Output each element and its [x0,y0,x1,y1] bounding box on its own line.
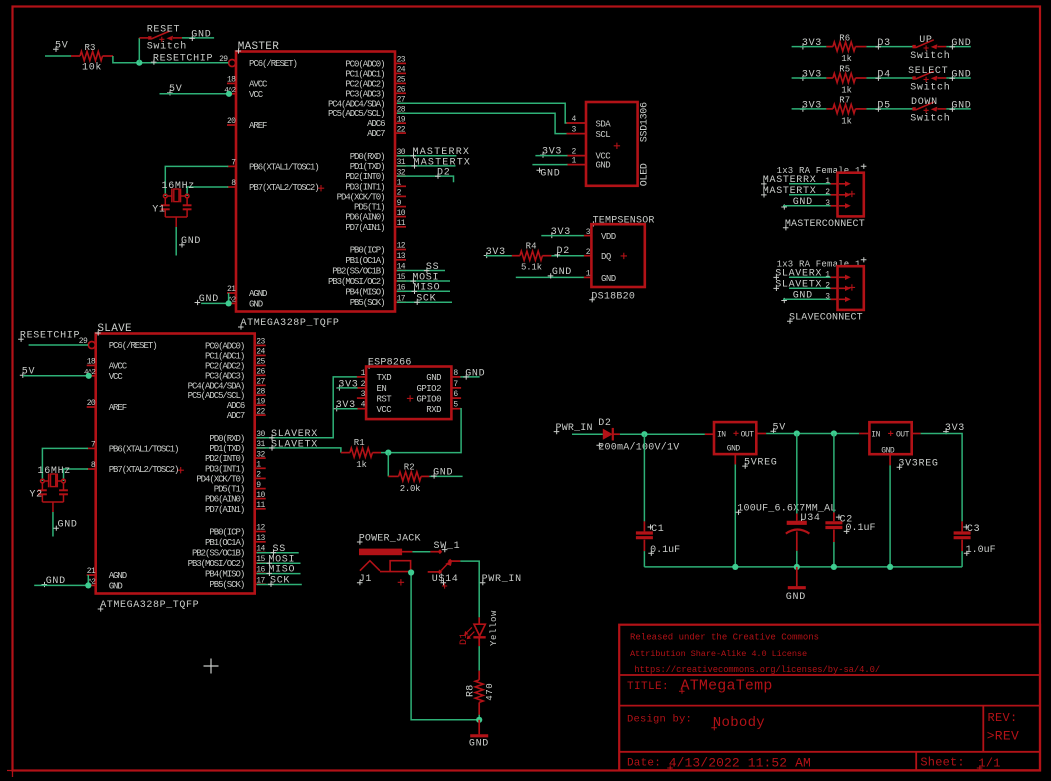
svg-text:PD0(RXD): PD0(RXD) [209,434,244,444]
junction R1/R2/RXD node [385,450,391,456]
svg-text:RESETCHIP: RESETCHIP [153,53,213,64]
resistor R2 2.0k [388,475,398,477]
svg-text:PD7(AIN1): PD7(AIN1) [345,223,384,233]
wire R6 to UP switch [866,46,914,48]
svg-text:27: 27 [256,378,265,387]
svg-text:R6: R6 [839,33,850,43]
svg-text:Switch: Switch [910,82,950,94]
wire R7 to DOWN switch [866,108,914,110]
svg-text:10k: 10k [82,62,102,74]
svg-text:4/13/2022 11:52 AM: 4/13/2022 11:52 AM [669,755,811,770]
svg-text:1.0uF: 1.0uF [966,545,996,556]
svg-text:21: 21 [87,567,96,576]
svg-text:PB3(MOSI/OC2): PB3(MOSI/OC2) [328,277,385,287]
svg-text:5.1k: 5.1k [521,262,542,272]
svg-text:PD3(INT1): PD3(INT1) [205,464,244,474]
svg-text:GPIO0: GPIO0 [416,394,441,404]
svg-text:22: 22 [256,407,265,416]
switch SW_1 / U$14 [437,549,442,554]
wire SDA master PC4 to OLED [397,103,568,123]
switch UP [912,45,915,48]
svg-text:J1: J1 [359,574,372,585]
MASTERCONNECT pin 3 [831,205,838,207]
wire down to C2 [833,434,835,513]
svg-text:PC5(ADC5/SCL): PC5(ADC5/SCL) [328,109,385,119]
svg-text:MASTERCONNECT: MASTERCONNECT [785,219,865,230]
svg-text:SCL: SCL [596,130,611,140]
svg-text:DS18B20: DS18B20 [591,291,635,302]
svg-text:24: 24 [256,348,265,357]
ground symbol (LED branch) [478,720,480,735]
wire SLAVERX to SLAVECONNECT pin 1 [789,276,831,278]
svg-text:OUT: OUT [741,430,755,439]
svg-text:SS: SS [273,544,286,555]
svg-text:R1: R1 [354,438,365,448]
resistor R7 1k [826,108,833,110]
connector SLAVECONNECT body [838,266,864,310]
svg-text:GND: GND [540,168,560,179]
svg-text:Nobody: Nobody [713,715,765,731]
svg-text:PD3(INT1): PD3(INT1) [345,182,384,192]
svg-text:POWER_JACK: POWER_JACK [359,533,421,544]
wire MASTERRX (master PD0) [397,155,456,157]
wire slave PB6 to crystal Y2 [42,448,88,481]
svg-text:SLAVECONNECT: SLAVECONNECT [789,313,863,324]
wire 3V3 to R4 [486,255,512,257]
svg-text:AVCC: AVCC [109,361,128,371]
wire 3V3 to DS18B20 VDD [541,235,584,237]
DS18B20 pin stubs [584,235,592,237]
svg-text:D4: D4 [877,70,890,81]
svg-text:R5: R5 [839,65,850,75]
svg-text:ADC6: ADC6 [227,401,245,411]
svg-text:23: 23 [397,56,406,65]
SLAVECONNECT pin 2 [831,287,838,289]
svg-text:AREF: AREF [249,121,267,131]
svg-text:VDD: VDD [601,232,616,242]
wire jack tip to switch SW_1 [402,551,412,553]
resistor R1 1k [341,452,350,454]
switch SW_1 lower throw stub [428,571,439,573]
svg-text:21: 21 [227,285,236,294]
wire R2 to GND label [429,475,462,477]
svg-text:>REV: >REV [987,729,1019,744]
svg-text:12: 12 [397,242,406,251]
svg-text:PD5(T1): PD5(T1) [354,203,384,213]
wire switch to GND label [182,37,214,39]
wire 3V3 to OLED VCC [535,155,567,157]
wire GND to SLAVECONNECT pin 3 [783,298,831,300]
svg-text:MASTER: MASTER [238,41,280,53]
svg-text:ADC7: ADC7 [367,129,385,139]
svg-text:PWR_IN: PWR_IN [556,423,593,434]
OLED pin stubs [567,122,587,124]
wire 3V3 to ESP VCC [336,408,358,410]
svg-text:VCC: VCC [109,372,124,382]
svg-text:5VREG: 5VREG [744,457,778,468]
switch SELECT [912,76,915,79]
svg-text:PB4(MISO): PB4(MISO) [205,569,244,579]
wire ESP RXD to R1/R2 node [388,409,461,453]
svg-text:RESETCHIP: RESETCHIP [20,331,80,342]
svg-text:R7: R7 [839,96,850,106]
svg-text:GND: GND [596,161,611,171]
svg-text:PB3(MOSI/OC2): PB3(MOSI/OC2) [188,559,245,569]
capacitor C2 0.1uF [833,512,835,521]
svg-text:PD2(INT0): PD2(INT0) [345,172,384,182]
wire SCK (slave PB5) [257,584,302,586]
resistor R4 [512,255,520,257]
svg-text:DOWN: DOWN [911,97,938,108]
3V3REG output [912,433,921,435]
svg-text:ATMEGA328P_TQFP: ATMEGA328P_TQFP [100,600,199,611]
wire SCL master PC5 to OLED [397,113,568,133]
svg-text:GND: GND [786,592,806,603]
svg-text:RXD: RXD [426,405,441,415]
wire D2 net to DS18B20 DQ [551,255,584,257]
svg-text:Design by:: Design by: [627,714,692,726]
wire switch common to PWR_IN corner [451,560,460,562]
svg-text:MISO: MISO [414,283,441,294]
svg-text:GPIO2: GPIO2 [416,384,441,394]
wire 5V to slave VCC [23,375,89,377]
svg-text:25: 25 [256,358,265,367]
wire DOWN switch to GND [946,108,971,110]
svg-text:PB2(SS/OC1B): PB2(SS/OC1B) [332,267,384,277]
regulator 3V3REG body [859,433,869,435]
MASTER left-side pins [227,82,236,84]
title block divider lines [619,675,1040,770]
svg-text:ATMEGA328P_TQFP: ATMEGA328P_TQFP [241,318,340,329]
svg-text:VCC: VCC [377,405,393,415]
OLED SSD1306 module body [586,102,638,186]
svg-text:PB1(OC1A): PB1(OC1A) [345,256,384,266]
svg-text:1k: 1k [841,117,851,127]
wire C2 to ground rail [833,542,835,567]
svg-text:RESET: RESET [147,25,181,36]
svg-text:GND: GND [951,70,971,81]
svg-text:GND: GND [249,299,263,309]
junction 3V3REG gnd [887,564,893,570]
svg-text:20: 20 [227,117,236,126]
svg-text:Attribution Share-Alike 4.0 Li: Attribution Share-Alike 4.0 License [630,649,807,659]
svg-text:IN: IN [717,430,726,439]
svg-text:REV:: REV: [988,711,1018,725]
origin crosshair mark [204,659,219,674]
MASTER pin 29 PC6(/RESET) bubble [229,60,236,67]
temperature sensor DS18B20 body [591,224,644,287]
svg-text:PC3(ADC3): PC3(ADC3) [205,371,244,381]
LED D1 Yellow [478,617,480,624]
SLAVE ATMEGA328P_TQFP chip body [96,334,255,594]
3V3REG ground pin to rail [889,454,891,465]
junction C1 tap [641,431,647,437]
svg-text:R4: R4 [526,242,537,252]
junction U34 tap [794,430,800,436]
svg-text:1k: 1k [841,54,851,64]
MASTERCONNECT pin 1 [831,183,838,185]
svg-text:PB6(XTAL1/TOSC1): PB6(XTAL1/TOSC1) [109,444,179,454]
svg-text:OLED: OLED [640,163,651,186]
svg-text:SELECT: SELECT [908,66,948,77]
wire down to C1 [643,434,645,521]
wire master PB7 to crystal [187,187,228,196]
svg-text:25: 25 [397,76,406,85]
svg-text:PB5(SCK): PB5(SCK) [209,580,244,590]
wire PWR_IN to D2 [572,433,603,435]
svg-text:PC0(ADC0): PC0(ADC0) [345,59,384,69]
wire RESETCHIP to slave PC6 [29,344,88,346]
svg-text:PB1(OC1A): PB1(OC1A) [205,538,244,548]
svg-text:Yellow: Yellow [489,610,499,646]
svg-text:3V3: 3V3 [802,70,822,81]
svg-text:PB4(MISO): PB4(MISO) [345,287,384,297]
svg-text:PC2(ADC2): PC2(ADC2) [345,79,384,89]
svg-text:GND: GND [58,520,78,531]
svg-text:Switch: Switch [147,41,187,53]
svg-text:PD7(AIN1): PD7(AIN1) [205,505,244,515]
svg-text:20: 20 [87,399,96,408]
svg-text:5V: 5V [773,423,786,434]
svg-text:D2: D2 [598,418,611,429]
junction master VCC [226,91,232,97]
svg-text:IN: IN [871,431,880,440]
svg-text:D1: D1 [459,632,470,645]
svg-text:TXD: TXD [377,373,392,383]
svg-text:AVCC: AVCC [249,79,268,89]
junction U34 gnd [794,564,800,570]
border corner mark bottom-left [7,765,18,777]
svg-text:GND: GND [433,467,453,478]
svg-text:19: 19 [256,397,265,406]
wire MASTERTX to MASTERCONNECT pin 2 [789,194,831,196]
svg-text:GND: GND [191,30,211,41]
wire LED to R8 [478,646,480,671]
svg-text:470: 470 [485,683,495,701]
wire 5V to R3 [45,55,71,57]
wire SLAVETX slave PD1 to R1 [257,448,341,453]
svg-text:RST: RST [377,394,393,404]
svg-text:PC6(/RESET): PC6(/RESET) [109,341,157,351]
ESP8266 left pin stubs [357,376,366,378]
capacitor C1 0.1uF [643,521,645,531]
svg-text:1k: 1k [356,460,366,470]
svg-text:16MHz: 16MHz [162,181,196,192]
title block frame [619,625,1040,771]
wire slave PB7 to crystal Y2 [64,469,89,481]
junction C2 gnd [831,564,837,570]
svg-text:100UF_6.6X7MM_AL: 100UF_6.6X7MM_AL [737,504,836,515]
wire R3 to RESETCHIP node [113,56,228,63]
svg-text:Switch: Switch [910,50,950,62]
svg-text:3V3: 3V3 [802,38,822,49]
SLAVECONNECT pin 3 [831,298,838,300]
svg-text:PD5(T1): PD5(T1) [214,485,244,495]
MASTER ATMEGA328P_TQFP chip body [236,52,395,312]
svg-text:SLAVETX: SLAVETX [775,280,822,291]
svg-text:AGND: AGND [109,571,127,581]
connector MASTERCONNECT body [838,173,864,217]
wire MASTERTX (master PD1) [397,165,456,167]
svg-text:2.0k: 2.0k [400,484,420,494]
SLAVE pin 29 PC6(/RESET) bubble [88,342,95,349]
wire MASTERRX to MASTERCONNECT pin 1 [789,183,831,185]
wire down to U34 [796,434,798,514]
svg-text:GND: GND [727,444,741,453]
wire U34 to ground rail [796,551,798,567]
svg-text:C3: C3 [967,524,980,535]
svg-text:GND: GND [951,101,971,112]
svg-text:200mA/100V/1V: 200mA/100V/1V [598,441,679,453]
junction jack return [408,569,414,575]
svg-text:D5: D5 [877,101,890,112]
wire node to RESET switch [138,38,140,63]
resistor R5 1k [826,77,833,79]
svg-text:SLAVERX: SLAVERX [775,269,822,280]
svg-text:PD4(XCK/T0): PD4(XCK/T0) [196,474,244,484]
wire R8 to GND [478,715,480,720]
svg-text:1k: 1k [841,86,851,96]
svg-text:ATMegaTemp: ATMegaTemp [681,677,773,694]
wire master PB6 to crystal [165,166,228,196]
svg-text:R3: R3 [85,43,96,53]
svg-text:13: 13 [256,534,265,543]
svg-text:GND: GND [426,373,441,383]
wire slave AGND tie [87,575,89,585]
junction LED GND node [476,717,482,723]
junction node RESET [136,60,142,66]
svg-text:PB5(SCK): PB5(SCK) [350,298,385,308]
ESP8266 right pin stubs [451,376,461,378]
ground symbol (power rail) [796,567,798,586]
polarized capacitor U34 100uF [796,514,798,521]
svg-text:ADC6: ADC6 [367,119,385,129]
wire GND to slave GND pin [34,584,88,586]
wire SS (master PB2) [397,270,445,272]
wire C1 to ground rail [643,551,645,567]
regulator 5VREG body [705,433,714,435]
junction slave VCC [86,373,92,379]
SLAVE left-side pins [87,364,96,366]
svg-text:TITLE:: TITLE: [627,681,669,693]
wire GND to MASTERCONNECT pin 3 [783,205,831,207]
svg-text:28: 28 [256,387,265,396]
wire MISO (slave PB4) [257,573,301,575]
svg-text:0.1uF: 0.1uF [650,545,680,556]
svg-text:DQ: DQ [601,252,611,262]
power jack J1 barrel [359,549,402,556]
resistor R8 470 (vertical) [478,671,480,680]
svg-text:PD4(XCK/T0): PD4(XCK/T0) [337,192,385,202]
svg-text:SS: SS [426,262,439,273]
svg-text:PD1(TXD): PD1(TXD) [350,162,385,172]
wire GND to OLED GND [532,164,567,166]
wire 3V3 to R5 [792,77,827,79]
wire 3V3 to C3 [921,434,963,522]
wire 3V3 to R6 [792,46,827,48]
junction 5VREG gnd [732,564,738,570]
svg-text:OUT: OUT [896,431,910,440]
svg-text:SCK: SCK [270,576,290,587]
svg-text:SLAVE: SLAVE [97,323,132,335]
wire SS (slave PB2) [257,552,299,554]
wire 5V rail [766,433,859,435]
wire jack return to GND rail [411,573,479,720]
svg-text:10: 10 [397,209,406,218]
wire R1 to node [381,452,388,454]
wire GND to DS18B20 GND [516,276,584,278]
svg-text:PC1(ADC1): PC1(ADC1) [345,69,384,79]
svg-text:PC6(/RESET): PC6(/RESET) [249,59,297,69]
svg-text:D3: D3 [877,38,890,49]
svg-text:3V3: 3V3 [802,101,822,112]
svg-text:3V3: 3V3 [945,423,965,434]
svg-text:PD2(INT0): PD2(INT0) [205,454,244,464]
SLAVE right-side pin stubs [255,344,266,346]
switch DOWN [912,107,915,110]
5VREG ground pin to rail [734,454,736,464]
svg-text:GND: GND [601,274,616,284]
svg-text:PC3(ADC3): PC3(ADC3) [345,89,384,99]
svg-text:Switch: Switch [910,113,950,125]
svg-text:https://creativecommons.org/li: https://creativecommons.org/licenses/by-… [634,665,880,675]
svg-text:ADC7: ADC7 [227,411,245,421]
svg-text:MISO: MISO [268,565,295,576]
wire SELECT switch to GND [946,77,971,79]
switch RESET [139,37,148,39]
wire MISO (master PB4) [397,290,450,292]
svg-text:PC4(ADC4/SDA): PC4(ADC4/SDA) [188,381,245,391]
junction master GND [226,300,232,306]
svg-text:PD6(AIN0): PD6(AIN0) [205,495,244,505]
svg-text:R2: R2 [404,462,415,472]
capacitor C3 1.0uF [961,521,963,531]
crystal Y2 16MHz with load caps [41,479,45,483]
svg-text:26: 26 [256,368,265,377]
wire crystal Y2 to GND label [52,512,54,537]
svg-text:18: 18 [87,357,96,366]
wire node down to R2 [387,453,389,477]
wire UP switch to GND [946,46,971,48]
wire MOSI (slave PB3) [257,562,301,564]
diode D2 200mA/100V/1V [603,429,613,440]
wire 3V3 to R7 [792,108,827,110]
svg-text:GND: GND [552,267,572,278]
svg-text:PC0(ADC0): PC0(ADC0) [205,341,244,351]
svg-text:11: 11 [397,219,406,228]
svg-text:Released under the Creative Co: Released under the Creative Commons [630,633,819,643]
MASTERCONNECT pin 2 [831,194,838,196]
svg-text:PD6(AIN0): PD6(AIN0) [345,213,384,223]
svg-text:PWR_IN: PWR_IN [482,574,522,585]
svg-text:Date:: Date: [627,758,661,770]
svg-text:GND: GND [181,236,201,247]
wire master AGND tie [228,293,230,303]
MASTER right-side pin stubs [395,62,406,64]
wire SCK (master PB5) [397,301,452,303]
wire MOSI (master PB3) [397,280,450,282]
svg-text:PC1(ADC1): PC1(ADC1) [205,351,244,361]
svg-text:PC4(ADC4/SDA): PC4(ADC4/SDA) [328,99,385,109]
svg-text:PC5(ADC5/SCL): PC5(ADC5/SCL) [188,391,245,401]
wire R5 to SELECT switch [866,77,914,79]
svg-text:32: 32 [256,450,265,459]
svg-text:SLAVETX: SLAVETX [271,439,318,450]
svg-text:GND: GND [793,291,813,302]
svg-text:D2: D2 [557,246,570,257]
svg-text:3V3REG: 3V3REG [898,459,938,470]
junction slave GND [85,582,91,588]
